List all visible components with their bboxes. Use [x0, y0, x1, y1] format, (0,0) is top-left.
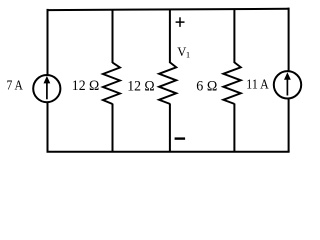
wire branch 4 lower	[233, 104, 235, 153]
polarity plus of V1	[176, 17, 185, 27]
label V1	[177, 45, 190, 60]
wire branch 3 upper	[169, 10, 171, 63]
wire branch 2 lower	[112, 104, 114, 152]
wire top rail	[48, 9, 289, 10]
wire branch 4 upper	[233, 9, 235, 63]
resistor R2 12 ohm	[159, 62, 176, 104]
svg-text:12 Ω: 12 Ω	[127, 78, 155, 94]
svg-text:12 Ω: 12 Ω	[72, 78, 100, 94]
wire right branch lower (source I2 to bottom rail)	[288, 98, 290, 152]
svg-text:11 A: 11 A	[246, 77, 268, 92]
resistor R3 6 ohm	[223, 62, 241, 104]
svg-text:7 A: 7 A	[7, 77, 23, 92]
wire right branch upper (top rail to source I2)	[288, 8, 290, 72]
resistor R1 12 ohm	[103, 63, 120, 104]
wire branch 3 lower	[169, 104, 171, 153]
wire branch 2 upper	[112, 10, 114, 63]
current source I2 11A	[274, 71, 301, 98]
wire left branch upper (top rail to source I1)	[47, 9, 49, 76]
svg-text:1: 1	[186, 50, 190, 60]
current source I1 7A	[33, 75, 60, 102]
svg-text:6 Ω: 6 Ω	[196, 78, 217, 94]
wire left branch lower (source I1 to bottom rail)	[47, 102, 49, 152]
polarity minus of V1	[175, 137, 186, 139]
wire bottom rail	[47, 151, 290, 153]
